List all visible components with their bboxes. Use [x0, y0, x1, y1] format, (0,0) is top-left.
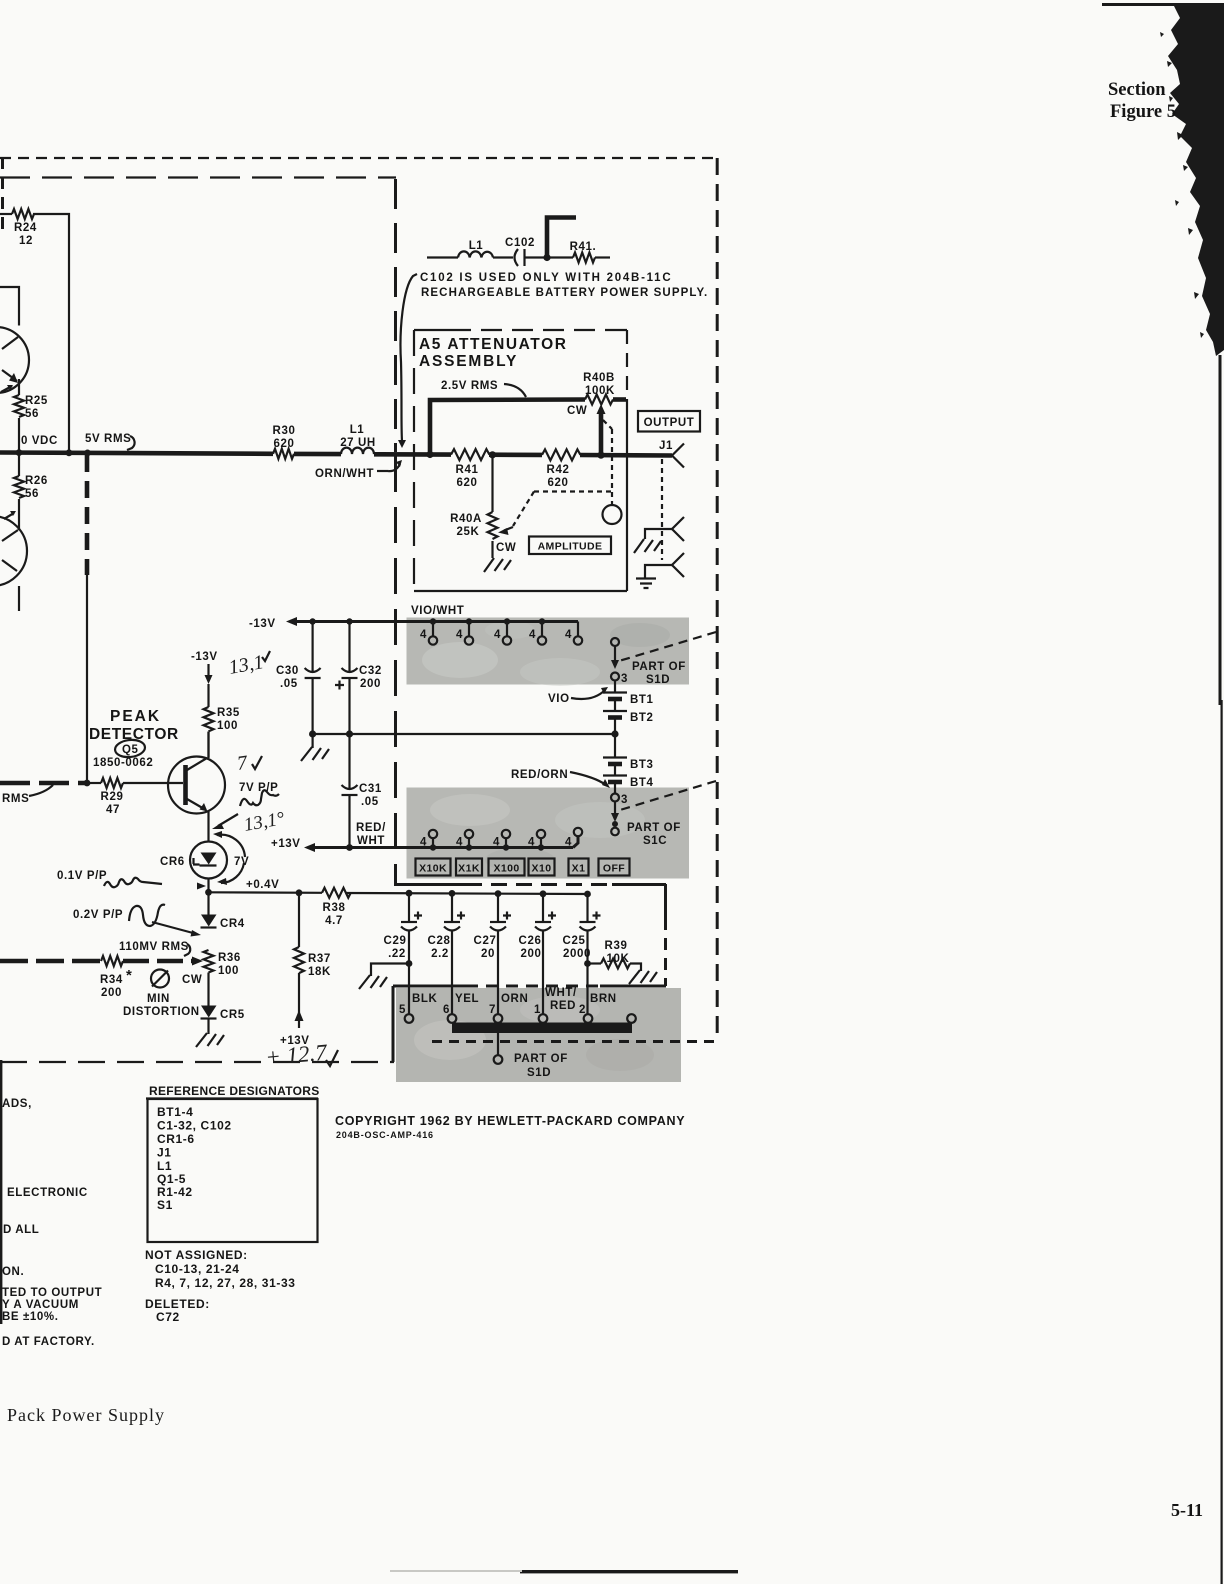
inner board boundary: bottom-left bold dashed [0, 1061, 394, 1063]
svg-text:PART OF: PART OF [627, 822, 681, 834]
svg-text:VIO/WHT: VIO/WHT [411, 605, 464, 617]
svg-text:620: 620 [548, 477, 569, 489]
svg-text:12: 12 [19, 235, 33, 247]
svg-text:Pack Power Supply: Pack Power Supply [7, 1405, 165, 1425]
svg-text:L1: L1 [157, 1159, 172, 1173]
ground (earth bars) [636, 579, 656, 589]
svg-text:J1: J1 [659, 440, 673, 452]
svg-text:4: 4 [456, 629, 463, 641]
svg-text:R37: R37 [308, 953, 331, 965]
left page edge line [0, 1060, 2, 1324]
capacitor C25 [563, 891, 601, 1014]
svg-text:X100: X100 [493, 863, 519, 875]
diode CR5 [207, 973, 209, 1007]
svg-text:S1: S1 [157, 1198, 173, 1212]
svg-text:620: 620 [274, 438, 295, 450]
svg-text:.05: .05 [280, 678, 298, 690]
R40B wiper [599, 412, 604, 456]
outer dashed enclosure right edge [716, 158, 719, 1042]
A5 box bottom edge [414, 590, 627, 592]
svg-text:ADS,: ADS, [2, 1098, 32, 1110]
svg-text:5-11: 5-11 [1171, 1500, 1203, 1520]
svg-text:47: 47 [106, 804, 120, 816]
svg-text:4: 4 [565, 629, 572, 641]
diode CR4 [207, 892, 209, 915]
svg-text:RED: RED [550, 1000, 576, 1012]
connector shield 3 [672, 553, 684, 577]
S1D wafer contacts (top band) [420, 618, 582, 644]
wire from 5V RMS node down [85, 455, 90, 575]
svg-text:WHT: WHT [357, 835, 385, 847]
node: 0 VDC junction [16, 449, 23, 456]
ground (chassis) [634, 539, 661, 553]
S1D bottom pole [497, 1033, 499, 1055]
svg-text:56: 56 [25, 408, 39, 420]
svg-text:CR6: CR6 [160, 856, 185, 868]
svg-text:X1K: X1K [458, 863, 480, 875]
resistor R24 [12, 209, 34, 219]
resistor R41 [451, 449, 489, 460]
svg-text:PART OF: PART OF [632, 661, 686, 673]
svg-text:.05: .05 [361, 796, 379, 808]
main signal wire 5V RMS bus [0, 453, 273, 454]
svg-text:PEAK: PEAK [110, 708, 161, 725]
svg-text:S1D: S1D [646, 674, 670, 686]
svg-text:18K: 18K [308, 966, 331, 978]
wire 2.5V branch [430, 400, 585, 455]
svg-text:AMPLITUDE: AMPLITUDE [538, 541, 603, 553]
svg-text:4: 4 [420, 629, 427, 641]
capacitor C27 [474, 890, 511, 1014]
svg-text:ELECTRONIC: ELECTRONIC [7, 1187, 88, 1199]
inner board boundary: vertical x=395 upper [394, 179, 397, 452]
svg-text:4: 4 [493, 837, 500, 849]
svg-text:R39: R39 [605, 940, 628, 952]
inner board boundary: bold dash-dot top [0, 176, 396, 178]
potentiometer R40B [585, 395, 613, 405]
diode CR6 in circle [190, 842, 227, 879]
resistor R30 [273, 449, 294, 459]
svg-text:ORN/WHT: ORN/WHT [315, 468, 374, 480]
svg-text:+0.4V: +0.4V [246, 879, 279, 891]
resistor R39 [584, 960, 591, 967]
waveform squiggle 7V [240, 790, 279, 806]
svg-text:204B-OSC-AMP-416: 204B-OSC-AMP-416 [336, 1130, 434, 1140]
svg-text:C10-13, 21-24: C10-13, 21-24 [155, 1262, 240, 1276]
switch position label X1K [456, 859, 482, 876]
svg-text:-13V: -13V [191, 651, 218, 663]
svg-text:OUTPUT: OUTPUT [644, 417, 695, 429]
svg-text:1850-0062: 1850-0062 [93, 757, 153, 769]
svg-text:CW: CW [496, 542, 516, 554]
ground below R40A [491, 541, 493, 558]
svg-text:L1: L1 [350, 424, 365, 436]
mechanical dashed linkage diagonal [619, 632, 716, 661]
svg-text:.22: .22 [388, 948, 406, 960]
svg-text:100: 100 [217, 720, 238, 732]
svg-text:C102: C102 [505, 237, 535, 249]
svg-text:7V P/P: 7V P/P [239, 782, 278, 794]
svg-text:56: 56 [25, 488, 39, 500]
svg-text:R29: R29 [101, 791, 124, 803]
battery BT3 [614, 734, 616, 757]
capacitor C102 [515, 249, 519, 266]
svg-text:R25: R25 [25, 395, 48, 407]
svg-text:25K: 25K [457, 526, 480, 538]
svg-text:R4, 7, 12, 27, 28, 31-33: R4, 7, 12, 27, 28, 31-33 [155, 1276, 296, 1290]
arrow to emitter wire [218, 814, 238, 826]
wire [493, 256, 513, 258]
svg-text:DELETED:: DELETED: [145, 1297, 210, 1311]
svg-text:*: * [126, 967, 132, 984]
node R40B wiper junction [597, 452, 604, 459]
svg-text:200: 200 [101, 987, 122, 999]
resistor R38 [322, 888, 351, 898]
svg-text:COPYRIGHT 1962 BY HEWLETT-PACK: COPYRIGHT 1962 BY HEWLETT-PACKARD COMPAN… [335, 1114, 685, 1128]
svg-text:C102 IS USED ONLY WITH 204B-11: C102 IS USED ONLY WITH 204B-11C [420, 272, 672, 284]
node C102 junction [543, 254, 550, 261]
svg-text:YEL: YEL [455, 993, 479, 1005]
svg-text:X1: X1 [572, 863, 586, 875]
svg-text:2000: 2000 [563, 948, 591, 960]
annotation arcs around CR6 [217, 835, 245, 857]
svg-text:ORN: ORN [501, 993, 528, 1005]
svg-text:R40B: R40B [583, 372, 615, 384]
svg-text:CR5: CR5 [220, 1009, 245, 1021]
svg-text:Q1-5: Q1-5 [157, 1172, 186, 1186]
inductor L1 (battery filter) [458, 251, 493, 257]
switch position label OFF [599, 859, 630, 876]
svg-text:X10: X10 [532, 863, 552, 875]
svg-text:R36: R36 [218, 952, 241, 964]
svg-text:20: 20 [481, 948, 495, 960]
svg-text:BE ±10%.: BE ±10%. [2, 1311, 59, 1323]
svg-text:C31: C31 [359, 783, 382, 795]
AMPLITUDE label box [529, 537, 611, 555]
wire RMS input bold dashed [0, 781, 86, 786]
svg-text:620: 620 [457, 477, 478, 489]
capacitor C29 [384, 890, 422, 1014]
note leader curved arrow to wire [401, 274, 418, 441]
svg-text:-13V: -13V [249, 618, 276, 630]
svg-text:ASSEMBLY: ASSEMBLY [419, 353, 518, 370]
svg-text:RED/ORN: RED/ORN [511, 769, 568, 781]
node main line junctions in A5 [426, 451, 433, 458]
outer dashed enclosure top edge [0, 157, 718, 159]
svg-text:R26: R26 [25, 475, 48, 487]
svg-text:D ALL: D ALL [3, 1224, 39, 1236]
inner board boundary: horizontal y=986 [600, 985, 666, 988]
node +0.4V [205, 889, 212, 896]
wire R24 left lead [0, 213, 12, 215]
svg-text:BLK: BLK [412, 993, 438, 1005]
svg-text:R24: R24 [14, 222, 37, 234]
svg-text:7V: 7V [234, 856, 249, 868]
svg-text:100: 100 [218, 965, 239, 977]
battery BT1 [603, 691, 627, 693]
svg-text:C72: C72 [156, 1310, 180, 1324]
inner board boundary: horizontal y=885 [394, 883, 466, 886]
svg-text:R1-42: R1-42 [157, 1185, 193, 1199]
svg-text:5: 5 [399, 1004, 406, 1016]
node: R24 drop junction [66, 449, 73, 456]
svg-text:Q5: Q5 [122, 744, 139, 756]
svg-text:BT4: BT4 [630, 777, 654, 789]
svg-text:CR1-6: CR1-6 [157, 1132, 195, 1146]
svg-text:RECHARGEABLE BATTERY POWER SUP: RECHARGEABLE BATTERY POWER SUPPLY. [421, 287, 708, 299]
svg-text:C1-32, C102: C1-32, C102 [157, 1119, 232, 1133]
resistor R42 [542, 449, 580, 460]
resistor R35 [207, 684, 209, 707]
svg-text:S1D: S1D [527, 1067, 551, 1079]
svg-text:RMS: RMS [2, 793, 29, 805]
svg-text:C27: C27 [474, 935, 497, 947]
svg-text:ON.: ON. [2, 1266, 24, 1278]
svg-text:200: 200 [521, 948, 542, 960]
svg-text:R35: R35 [217, 707, 240, 719]
wire collector lead top transistor [0, 287, 19, 326]
svg-text:10K: 10K [607, 953, 630, 965]
svg-text:4: 4 [565, 837, 572, 849]
svg-text:27 UH: 27 UH [340, 437, 376, 449]
resistor R25 [18, 379, 20, 395]
svg-text:C28: C28 [428, 935, 451, 947]
C29 ground leg [406, 960, 413, 967]
gray halftone band S1D top [407, 618, 690, 687]
svg-text:CR4: CR4 [220, 918, 245, 930]
svg-text:REFERENCE DESIGNATORS: REFERENCE DESIGNATORS [149, 1084, 320, 1098]
svg-text:5V RMS: 5V RMS [85, 433, 131, 445]
svg-text:Figure 5: Figure 5 [1110, 102, 1176, 122]
switch position label X100 [489, 859, 525, 876]
switch position label X10 [529, 859, 555, 876]
capacitor C28 [428, 890, 465, 1014]
connector shield 2 [672, 517, 684, 541]
inner board boundary: vertical x=665.5 [664, 884, 667, 918]
svg-text:0.2V P/P: 0.2V P/P [73, 909, 123, 921]
S1C wafer contacts [420, 828, 582, 851]
svg-text:110MV RMS: 110MV RMS [119, 941, 189, 953]
wire CR6 to node [207, 879, 209, 893]
wire C102 subcircuit left lead [427, 256, 458, 258]
connector pins and wire labels [399, 987, 636, 1023]
svg-text:C26: C26 [519, 935, 542, 947]
capacitor C30 [312, 622, 314, 673]
svg-text:4: 4 [529, 629, 536, 641]
svg-text:DISTORTION: DISTORTION [123, 1006, 200, 1018]
battery wire top [614, 681, 616, 693]
capacitor C26 [519, 890, 556, 1014]
svg-text:CW: CW [567, 405, 587, 417]
svg-text:BT3: BT3 [630, 759, 654, 771]
inner board boundary: vertical x=395 lower [394, 456, 397, 884]
svg-text:PART OF: PART OF [514, 1053, 568, 1065]
svg-text:VIO: VIO [548, 693, 570, 705]
OUTPUT label box [638, 411, 700, 432]
Q5 circled designator [114, 738, 146, 758]
+13V arrow below R37 [298, 973, 300, 1028]
svg-text:2.5V RMS: 2.5V RMS [441, 380, 498, 392]
capacitor C31 [348, 734, 350, 790]
svg-text:4: 4 [528, 837, 535, 849]
shield dashed line [661, 459, 663, 560]
svg-text:D AT FACTORY.: D AT FACTORY. [2, 1336, 95, 1348]
ground below mid bus [312, 734, 314, 748]
svg-text:MIN: MIN [147, 993, 170, 1005]
switch position label X10K [416, 859, 451, 876]
S1C pole contact [614, 782, 616, 793]
svg-text:C25: C25 [563, 935, 586, 947]
svg-text:BT1-4: BT1-4 [157, 1105, 193, 1119]
potentiometer R40A [491, 455, 493, 512]
svg-text:TED TO OUTPUT: TED TO OUTPUT [2, 1287, 102, 1299]
resistor R26 [18, 452, 20, 476]
mechanical dashed linkage diagonal S1C [620, 781, 716, 810]
svg-text:BRN: BRN [590, 993, 617, 1005]
mid bus wire [313, 733, 615, 735]
transistor 2 (cut off at page edge) [0, 516, 27, 586]
ground below CR5 [207, 1019, 209, 1035]
A5 box left edge [413, 330, 415, 591]
svg-text:C30: C30 [276, 665, 299, 677]
potentiometer R36 [204, 950, 214, 973]
inductor L1 27UH [341, 448, 374, 454]
wire battery stub [547, 218, 576, 258]
svg-text:C29: C29 [384, 935, 407, 947]
A5 box right edge [626, 330, 628, 402]
svg-text:L1: L1 [469, 240, 484, 252]
svg-text:RED/: RED/ [356, 822, 386, 834]
AMPLITUDE knob circle [603, 505, 622, 524]
switch position label X1 [569, 859, 589, 876]
svg-text:S1C: S1C [643, 835, 667, 847]
svg-text:NOT ASSIGNED:: NOT ASSIGNED: [145, 1248, 248, 1262]
svg-text:R30: R30 [273, 425, 296, 437]
svg-text:Section: Section [1108, 80, 1166, 100]
S1D pole contact and arrow [611, 638, 619, 646]
transistor Q5 [168, 757, 225, 814]
svg-text:CW: CW [182, 974, 202, 986]
svg-text:X10K: X10K [419, 863, 447, 875]
R40A wiper arrow [504, 527, 513, 531]
svg-text:J1: J1 [157, 1146, 172, 1160]
inner board boundary: vertical x=393 [392, 986, 395, 1062]
outer dashed enclosure bottom-right edge [432, 1040, 718, 1043]
wire to mid junction [614, 718, 616, 734]
battery BT4 [614, 764, 616, 775]
resistor R34 [101, 956, 123, 966]
bottom page edge line [520, 1570, 738, 1573]
screwdriver adjust symbol [151, 970, 169, 988]
svg-text:R40A: R40A [450, 513, 482, 525]
transistor (cut off at page edge) [0, 327, 29, 393]
svg-text:0 VDC: 0 VDC [21, 435, 58, 447]
battery BT2 [603, 710, 627, 712]
svg-text:OFF: OFF [603, 863, 625, 875]
svg-text:3: 3 [621, 794, 628, 806]
svg-text:R41: R41 [456, 464, 479, 476]
svg-text:WHT/: WHT/ [545, 987, 577, 999]
gray halftone band S1C [407, 788, 690, 879]
svg-text:4: 4 [456, 837, 463, 849]
wire +0.4V bus [209, 891, 323, 894]
svg-text:4.7: 4.7 [325, 915, 343, 927]
svg-text:2.2: 2.2 [431, 948, 449, 960]
svg-text:R41.: R41. [570, 241, 597, 253]
svg-text:3: 3 [621, 673, 628, 685]
wire R34 bold dashed with arrow to R36 [0, 959, 101, 964]
wire to junction [525, 256, 574, 258]
svg-text:R34: R34 [100, 974, 123, 986]
resistor R29 [101, 778, 123, 788]
svg-text:0.1V P/P: 0.1V P/P [57, 870, 107, 882]
svg-text:C32: C32 [359, 665, 382, 677]
svg-text:BT2: BT2 [630, 712, 654, 724]
wire R24 to drop [33, 214, 69, 452]
resistor R41 (battery filter) [573, 253, 595, 263]
switch common bar S1D [452, 1023, 632, 1034]
node: 5V RMS junction [84, 450, 91, 457]
svg-text:A5 ATTENUATOR: A5 ATTENUATOR [419, 336, 568, 353]
svg-text:100K: 100K [585, 385, 615, 397]
svg-text:Y A VACUUM: Y A VACUUM [2, 1299, 79, 1311]
svg-text:4: 4 [420, 837, 427, 849]
capacitor C32 [348, 622, 350, 673]
svg-text:R38: R38 [323, 902, 346, 914]
svg-text:BT1: BT1 [630, 694, 654, 706]
mechanical linkage dashed to knob [603, 420, 612, 429]
svg-text:R42: R42 [547, 464, 570, 476]
A5 box top edge [414, 329, 450, 331]
ground below R39 [629, 970, 657, 984]
page corner black blob top right [1102, 3, 1224, 1584]
svg-text:200: 200 [360, 678, 381, 690]
resistor R37 [298, 893, 300, 947]
svg-text:4: 4 [494, 629, 501, 641]
gray halftone band bottom connector [396, 988, 681, 1082]
svg-text:+13V: +13V [271, 838, 301, 850]
